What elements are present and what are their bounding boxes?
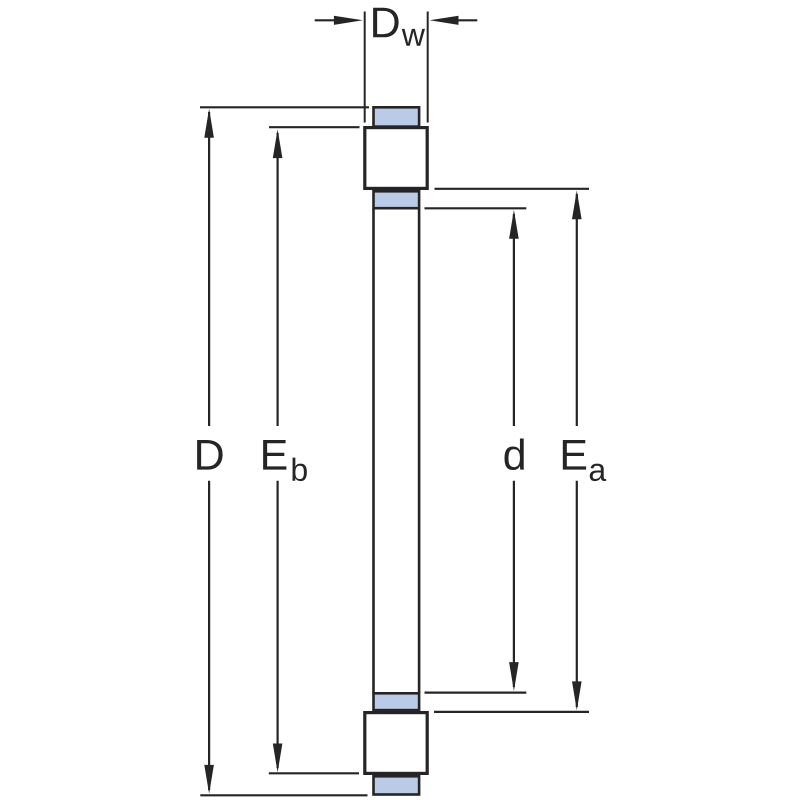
cage ring top (blue) [374, 107, 420, 126]
Dw extension line left [364, 12, 366, 123]
d dimension line [509, 210, 519, 691]
washer body left edge (wire) [372, 209, 375, 694]
label Ea [563, 440, 586, 470]
d reference line top [425, 207, 527, 209]
Eb reference line top [269, 126, 360, 128]
Dw extension line right [427, 12, 429, 123]
Eb reference line bottom [269, 772, 359, 774]
washer body right edge (wire) [418, 209, 421, 694]
label D [197, 440, 222, 470]
D reference line top [200, 106, 369, 108]
label d [505, 438, 524, 470]
label Eb [263, 440, 286, 470]
Eb dimension line [273, 129, 283, 772]
cage ring bottom (blue) [374, 776, 420, 794]
Ea reference line top [435, 188, 590, 190]
cage ring upper-inner (blue) [374, 191, 420, 208]
roller top (white square) [365, 128, 427, 189]
Dw arrow left [315, 16, 363, 25]
D dimension line [204, 109, 214, 794]
label Dw [373, 8, 398, 38]
roller bottom (white square) [365, 713, 427, 774]
cage ring lower-inner (blue) [374, 693, 420, 710]
D reference line bottom [200, 794, 367, 796]
Ea dimension line [572, 190, 582, 710]
Dw arrow right [430, 16, 478, 25]
Ea reference line bottom [434, 711, 589, 713]
d reference line bottom [425, 691, 527, 693]
